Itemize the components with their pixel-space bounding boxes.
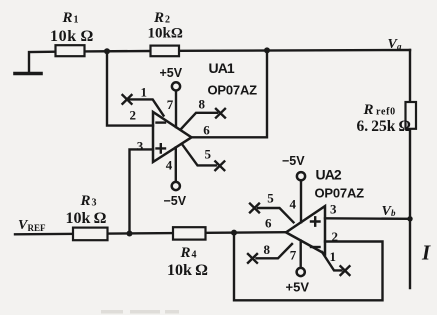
- node junction R3/R4/pin3: [127, 231, 133, 237]
- svg-text:R: R: [363, 102, 374, 118]
- svg-text:10k Ω: 10k Ω: [50, 28, 94, 45]
- U2 pin8 X: [248, 254, 257, 263]
- svg-text:R: R: [153, 10, 164, 26]
- U1 +5V terminal: [172, 82, 180, 90]
- U1 pin5 X: [215, 161, 224, 170]
- wire: Rref0 to Vb node: [409, 129, 411, 219]
- wire: current I branch below Vb: [409, 219, 411, 288]
- svg-text:2: 2: [165, 15, 170, 26]
- wire: UA1 output pin6 up to top rail: [192, 50, 268, 137]
- U2 pin8 lead: [257, 244, 293, 258]
- svg-text:4: 4: [192, 250, 197, 261]
- U2 pin5 lead: [258, 208, 294, 222]
- svg-text:4: 4: [166, 157, 173, 172]
- node junction output/top rail: [264, 47, 270, 53]
- svg-text:a: a: [397, 42, 402, 52]
- U1 pin8 lead: [182, 113, 218, 129]
- wire: VREF rail through R3 R4 to UA2 pin6: [15, 232, 286, 234]
- node A junction R1/R2: [104, 48, 110, 54]
- svg-text:+5V: +5V: [160, 66, 183, 80]
- op-amp U1 minus sign: [157, 121, 166, 123]
- svg-text:1: 1: [74, 15, 79, 26]
- svg-text:6: 6: [203, 122, 210, 137]
- node Vb junction: [407, 216, 412, 221]
- svg-text:7: 7: [167, 97, 174, 112]
- resistor Rref0: [406, 102, 417, 129]
- svg-text:R: R: [80, 193, 91, 209]
- svg-text:REF: REF: [28, 223, 47, 233]
- wire: feedback from node A down to UA1 pin2: [107, 51, 153, 126]
- svg-text:UA1: UA1: [209, 60, 235, 76]
- svg-text:b: b: [391, 208, 396, 218]
- svg-text:OP07AZ: OP07AZ: [315, 185, 365, 200]
- svg-text:−5V: −5V: [282, 154, 305, 168]
- svg-text:UA2: UA2: [316, 167, 342, 183]
- svg-text:2: 2: [332, 229, 339, 244]
- resistor R2: [151, 46, 180, 57]
- U1 pin7 lead: [175, 91, 177, 127]
- op-amp U1 plus sign: [157, 144, 166, 152]
- svg-text:6. 25k Ω: 6. 25k Ω: [357, 118, 411, 135]
- resistor R3: [73, 228, 108, 241]
- svg-text:R: R: [180, 245, 191, 261]
- svg-text:1: 1: [141, 84, 148, 99]
- svg-text:3: 3: [330, 202, 337, 217]
- svg-text:7: 7: [290, 248, 297, 263]
- svg-text:1: 1: [330, 249, 337, 264]
- U2 -5V terminal: [297, 172, 305, 180]
- U2 pin4 lead: [300, 181, 302, 223]
- node junction R4/pin6/loop: [231, 230, 237, 236]
- U2 pin1 X: [341, 266, 350, 275]
- svg-text:8: 8: [264, 242, 271, 257]
- op-amp U2 minus sign: [311, 246, 320, 248]
- U1 pin1 lead: [127, 99, 164, 115]
- op-amp U2 triangle (points left): [286, 206, 325, 254]
- U2 pin1 lead: [322, 252, 342, 270]
- svg-text:10k Ω: 10k Ω: [167, 262, 208, 279]
- wire: right vertical down to Rref0: [409, 50, 411, 102]
- svg-text:OP07AZ: OP07AZ: [208, 83, 258, 98]
- svg-text:3: 3: [92, 198, 97, 209]
- resistor R4: [173, 227, 206, 239]
- caption fragment at bottom: [101, 310, 123, 314]
- svg-text:5: 5: [205, 147, 212, 162]
- svg-text:I: I: [421, 241, 431, 265]
- wire: ground lead up to top rail: [29, 52, 56, 74]
- op-amp U1 triangle: [153, 112, 192, 162]
- wire: top rail R1 to R2 to right corner: [84, 50, 410, 51]
- resistor R1: [56, 45, 85, 56]
- svg-text:R: R: [62, 10, 73, 26]
- U1 pin5 lead: [183, 145, 217, 166]
- svg-text:2: 2: [130, 108, 137, 123]
- U2 pin5 X: [250, 204, 259, 213]
- svg-text:6: 6: [265, 216, 272, 231]
- wire: UA2 feedback loop bottom: [234, 233, 383, 301]
- ground: [15, 72, 41, 76]
- U1 pin4 lead: [175, 148, 177, 182]
- U2 pin7 lead: [300, 241, 302, 268]
- svg-text:5: 5: [267, 190, 274, 205]
- U1 pin1 X: [123, 95, 132, 104]
- svg-text:8: 8: [199, 96, 206, 111]
- U1 -5V terminal: [172, 182, 180, 190]
- op-amp U2 plus sign: [311, 217, 320, 225]
- svg-text:3: 3: [137, 138, 144, 153]
- svg-text:4: 4: [290, 197, 297, 212]
- svg-text:10k Ω: 10k Ω: [66, 210, 107, 227]
- U1 pin8 X: [216, 109, 225, 118]
- wire: UA1 pin3 down to VREF rail: [130, 149, 154, 233]
- svg-text:+5V: +5V: [286, 280, 310, 295]
- svg-text:10kΩ: 10kΩ: [148, 26, 183, 42]
- svg-text:−5V: −5V: [164, 194, 187, 208]
- wire: UA2 output pin3 to Vb node: [325, 217, 410, 220]
- svg-text:ref0: ref0: [376, 107, 396, 118]
- U2 +5V terminal: [297, 268, 305, 276]
